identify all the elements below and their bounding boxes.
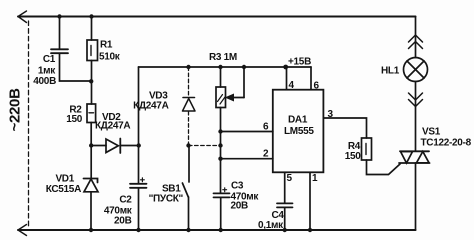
- capacitor C2: [130, 178, 147, 232]
- node mains boundary dashed: [28, 21, 30, 226]
- svg-text:6: 6: [263, 122, 269, 133]
- svg-text:400В: 400В: [33, 76, 56, 87]
- wire pin5 lead: [284, 172, 286, 203]
- svg-text:4: 4: [289, 80, 295, 91]
- svg-text:R1: R1: [100, 40, 113, 51]
- wire pin6: [221, 131, 273, 133]
- svg-text:R3 1М: R3 1М: [209, 52, 237, 63]
- switch SB1: [182, 146, 190, 233]
- zener VD1: [84, 146, 99, 233]
- svg-text:С3: С3: [231, 181, 244, 192]
- wire pin1 lead: [309, 172, 311, 230]
- resistor R4: [362, 138, 372, 160]
- resistor R2: [87, 104, 96, 148]
- wire gate: [367, 160, 401, 175]
- svg-text:С1: С1: [43, 54, 56, 65]
- svg-text:КД247А: КД247А: [95, 121, 130, 132]
- svg-text:LM555: LM555: [284, 126, 314, 137]
- wire lamp branch right side: [415, 17, 417, 58]
- capacitor C1: [51, 14, 91, 81]
- transistor Q1 : triac VS1: [399, 151, 430, 230]
- svg-text:ТС122-20-8: ТС122-20-8: [421, 138, 472, 149]
- svg-text:1: 1: [312, 173, 318, 184]
- svg-text:1мк: 1мк: [38, 66, 56, 77]
- svg-text:20В: 20В: [231, 201, 249, 212]
- wire +15V bus: [139, 66, 312, 68]
- node mains bottom arrow: [18, 225, 27, 236]
- wire pin3 to R4: [323, 118, 366, 138]
- capacitor C3: [214, 188, 230, 232]
- wire +15V vertical branch: [138, 67, 140, 184]
- potentiometer R3: [216, 65, 246, 193]
- svg-text:VS1: VS1: [422, 127, 441, 138]
- svg-text:5: 5: [287, 173, 293, 184]
- wire top rail: [18, 16, 416, 18]
- svg-text:КС515А: КС515А: [46, 184, 81, 195]
- svg-text:+15В: +15В: [288, 57, 311, 68]
- svg-text:20В: 20В: [114, 216, 132, 227]
- wire dashed link VD3/SB1 node to pins node: [189, 145, 221, 147]
- svg-text:КД247А: КД247А: [133, 101, 168, 112]
- svg-text:150: 150: [66, 114, 83, 125]
- wire pin2: [221, 158, 273, 160]
- capacitor C4: [277, 203, 293, 232]
- svg-text:С2: С2: [119, 195, 132, 206]
- diode VD2: [91, 139, 141, 154]
- node mains top arrow: [18, 11, 27, 23]
- resistor R1: [87, 14, 98, 104]
- svg-text:2: 2: [263, 149, 269, 160]
- svg-text:0,1мк: 0,1мк: [258, 220, 284, 231]
- svg-text:150: 150: [345, 151, 362, 162]
- svg-text:6: 6: [314, 81, 320, 92]
- op-amp U1 : timer DA1 LM555 body: [273, 90, 324, 173]
- svg-text:HL1: HL1: [381, 66, 400, 77]
- svg-text:"ПУСК": "ПУСК": [149, 194, 184, 205]
- svg-text:DA1: DA1: [288, 115, 308, 126]
- diode VD3 (dashed): [183, 65, 196, 148]
- node connector chevrons up: [409, 35, 423, 49]
- svg-text:~220В: ~220В: [7, 88, 24, 132]
- node connector chevrons down: [409, 93, 423, 107]
- node pins 6/2 junctions: [218, 129, 272, 161]
- wire bottom rail: [18, 229, 416, 231]
- svg-text:510к: 510к: [99, 52, 121, 63]
- svg-text:VD1: VD1: [55, 174, 74, 185]
- wire pin8 lead: [310, 67, 312, 90]
- wire pin4 lead: [286, 67, 288, 90]
- lamp HL1: [404, 58, 428, 82]
- svg-text:3: 3: [328, 109, 334, 120]
